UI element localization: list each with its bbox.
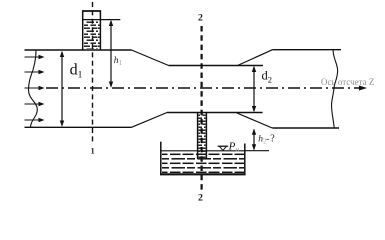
down tube left wall (197, 113, 199, 159)
pipe axis dash-dot centerline (46, 87, 362, 89)
diverging cone top edge (238, 50, 273, 66)
svg-text:2: 2 (198, 13, 203, 24)
free surface nabla mark (218, 146, 229, 150)
svg-text:1: 1 (119, 59, 123, 67)
wide pipe bottom-left edge (25, 126, 132, 128)
throat top edge (169, 65, 263, 67)
tank left wall (160, 142, 162, 174)
h1 dimension arrow (109, 20, 113, 88)
axis arrowhead (359, 86, 367, 91)
svg-text:-: - (266, 135, 269, 145)
down tube right wall (205, 113, 207, 159)
wide pipe top-right edge (273, 49, 342, 51)
flow arrow row 3 on axis (25, 86, 45, 90)
piezometer liquid hatch (84, 21, 100, 50)
svg-text:1: 1 (91, 147, 95, 156)
converging cone bottom edge (132, 113, 168, 128)
wide pipe bottom-right edge (272, 127, 339, 129)
section line 1-1 dashed (92, 2, 94, 143)
left break squiggle (29, 50, 38, 127)
tank bottom (160, 173, 246, 175)
svg-text:?: ? (270, 134, 275, 145)
throat bottom edge (167, 112, 263, 114)
piezometer tube left wall (82, 11, 84, 50)
down tube liquid hatch (199, 115, 206, 159)
right break squiggle (332, 50, 338, 128)
tank right wall (244, 144, 246, 175)
flow arrow row 1 (25, 55, 45, 59)
tank liquid level line (162, 150, 245, 152)
flow arrow row 4 (25, 102, 45, 106)
piezometer liquid level line (83, 19, 120, 21)
h2 dimension arrow (252, 129, 256, 151)
piezometer tube right wall (99, 11, 101, 50)
svg-text:Ось отсчета Z: Ось отсчета Z (321, 77, 374, 87)
flow arrow row 5 (25, 118, 45, 122)
piezometer tube top cap (82, 10, 101, 12)
flow arrow row 2 (25, 70, 45, 74)
wide pipe top-left edge (25, 49, 132, 51)
tank liquid level extension line (245, 150, 269, 152)
svg-text:2: 2 (198, 193, 203, 204)
section line 2-2 dashed bold (201, 26, 203, 191)
converging cone top edge (132, 50, 169, 66)
svg-text:P: P (228, 140, 236, 152)
d1 dimension arrow (60, 51, 64, 127)
svg-text:н: н (236, 146, 240, 154)
d2 dimension arrow (252, 66, 256, 112)
diverging cone bottom edge (237, 113, 272, 128)
tank liquid hatch (162, 152, 244, 173)
